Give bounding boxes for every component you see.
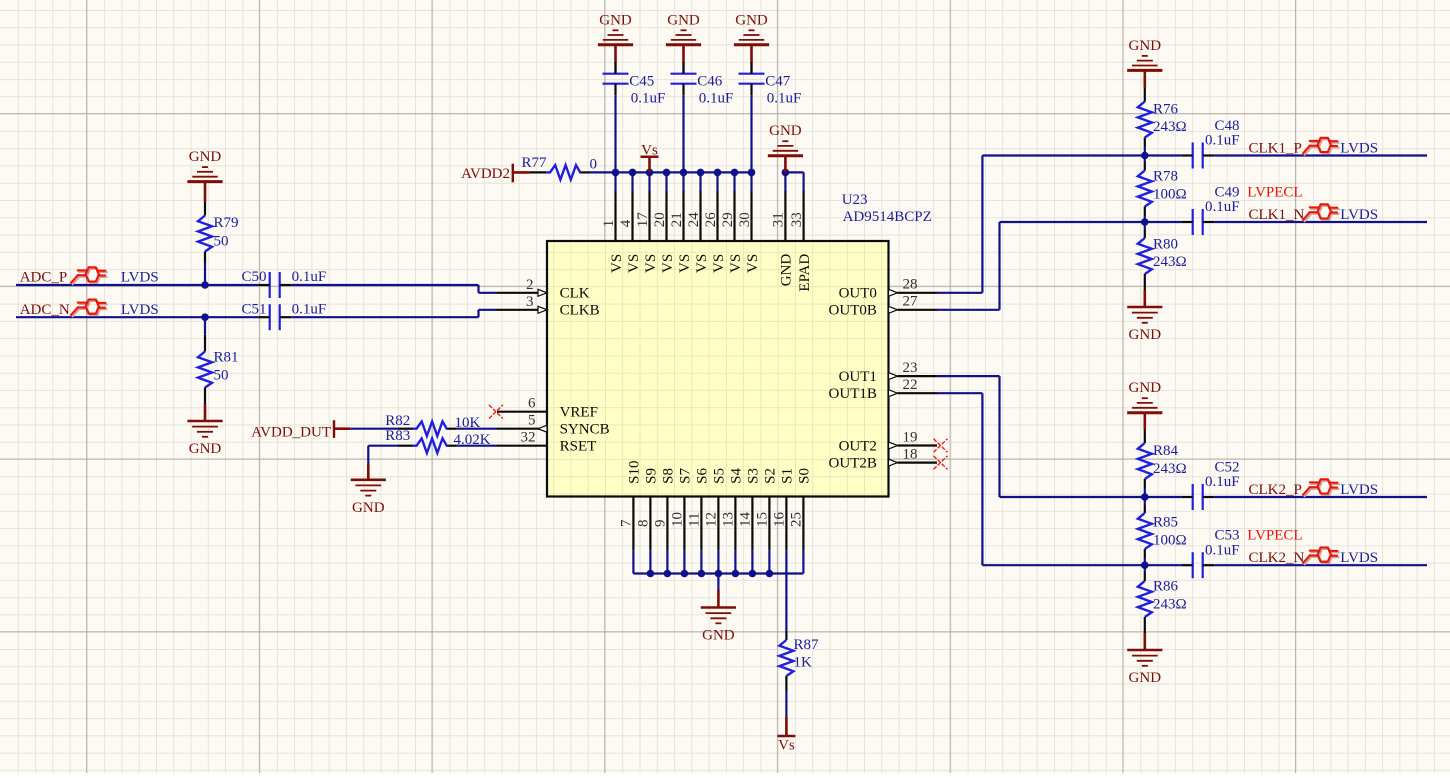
- svg-text:VS: VS: [677, 254, 693, 273]
- svg-text:3: 3: [526, 294, 534, 310]
- svg-text:4: 4: [618, 219, 634, 227]
- svg-text:ADC_P: ADC_P: [20, 270, 68, 286]
- svg-text:GND: GND: [189, 441, 222, 457]
- svg-text:13: 13: [721, 512, 737, 527]
- svg-text:10: 10: [670, 512, 686, 527]
- svg-text:EPAD: EPAD: [797, 254, 813, 292]
- svg-text:VS: VS: [609, 254, 625, 273]
- svg-text:0.1uF: 0.1uF: [1205, 474, 1240, 490]
- svg-text:GND: GND: [779, 254, 795, 287]
- svg-text:R77: R77: [522, 155, 548, 171]
- svg-text:4.02K: 4.02K: [454, 432, 491, 448]
- svg-text:Vs: Vs: [778, 738, 795, 754]
- svg-text:243Ω: 243Ω: [1153, 119, 1187, 135]
- svg-text:0.1uF: 0.1uF: [292, 269, 327, 285]
- svg-text:GND: GND: [352, 500, 385, 516]
- svg-text:R81: R81: [214, 350, 239, 366]
- svg-text:19: 19: [903, 429, 918, 445]
- svg-text:S3: S3: [746, 468, 762, 484]
- svg-text:R82: R82: [385, 413, 410, 429]
- svg-text:R87: R87: [794, 637, 820, 653]
- svg-text:50: 50: [214, 367, 229, 383]
- svg-text:25: 25: [789, 512, 805, 527]
- svg-text:R80: R80: [1153, 236, 1178, 252]
- svg-text:S7: S7: [678, 468, 694, 484]
- svg-text:1: 1: [601, 220, 617, 228]
- svg-text:LVDS: LVDS: [1340, 207, 1378, 223]
- svg-text:GND: GND: [1129, 38, 1162, 54]
- svg-text:GND: GND: [735, 12, 768, 28]
- svg-text:16: 16: [772, 512, 788, 528]
- svg-text:LVPECL: LVPECL: [1247, 528, 1302, 544]
- svg-text:CLK2_P: CLK2_P: [1249, 482, 1302, 498]
- svg-text:VS: VS: [728, 254, 744, 273]
- svg-text:AVDD2: AVDD2: [461, 166, 510, 182]
- svg-text:15: 15: [755, 512, 771, 527]
- svg-text:GND: GND: [1129, 670, 1162, 686]
- svg-text:CLK1_N: CLK1_N: [1249, 207, 1305, 223]
- svg-text:24: 24: [686, 212, 702, 228]
- svg-text:R86: R86: [1153, 579, 1179, 595]
- svg-text:OUT2: OUT2: [839, 438, 877, 454]
- svg-text:27: 27: [903, 294, 919, 310]
- svg-text:GND: GND: [702, 628, 735, 644]
- svg-text:R84: R84: [1153, 443, 1179, 459]
- svg-text:LVDS: LVDS: [121, 270, 159, 286]
- svg-text:0.1uF: 0.1uF: [1205, 542, 1240, 558]
- svg-text:C50: C50: [241, 269, 266, 285]
- svg-text:RSET: RSET: [560, 439, 597, 455]
- svg-text:14: 14: [738, 512, 754, 528]
- svg-text:29: 29: [720, 212, 736, 227]
- svg-text:R78: R78: [1153, 169, 1178, 185]
- svg-text:243Ω: 243Ω: [1153, 597, 1187, 613]
- svg-text:VREF: VREF: [560, 405, 598, 421]
- svg-text:243Ω: 243Ω: [1153, 461, 1187, 477]
- svg-text:32: 32: [521, 430, 536, 446]
- svg-text:GND: GND: [769, 123, 802, 139]
- svg-text:7: 7: [619, 519, 635, 527]
- svg-text:2: 2: [526, 277, 534, 293]
- svg-text:12: 12: [704, 512, 720, 527]
- svg-text:S6: S6: [695, 468, 711, 484]
- svg-text:21: 21: [669, 212, 685, 227]
- svg-text:31: 31: [771, 212, 787, 227]
- svg-text:6: 6: [528, 396, 536, 412]
- svg-text:OUT1B: OUT1B: [829, 386, 877, 402]
- svg-text:CLKB: CLKB: [560, 303, 600, 319]
- svg-text:GND: GND: [1129, 380, 1162, 396]
- svg-text:22: 22: [903, 377, 918, 393]
- svg-text:C45: C45: [629, 73, 654, 89]
- svg-text:S5: S5: [712, 468, 728, 484]
- svg-text:SYNCB: SYNCB: [560, 422, 610, 438]
- svg-text:33: 33: [789, 212, 805, 227]
- svg-text:8: 8: [636, 520, 652, 528]
- svg-text:C47: C47: [765, 73, 791, 89]
- svg-text:LVDS: LVDS: [1340, 482, 1378, 498]
- svg-text:S0: S0: [797, 468, 813, 484]
- svg-text:243Ω: 243Ω: [1153, 254, 1187, 270]
- svg-text:18: 18: [903, 446, 918, 462]
- svg-text:OUT0: OUT0: [839, 286, 877, 302]
- svg-text:5: 5: [528, 413, 536, 429]
- svg-text:GND: GND: [599, 12, 632, 28]
- svg-text:17: 17: [635, 212, 651, 228]
- svg-text:C52: C52: [1215, 459, 1240, 475]
- svg-text:S10: S10: [627, 461, 643, 484]
- svg-text:0.1uF: 0.1uF: [631, 90, 666, 106]
- svg-text:S8: S8: [661, 468, 677, 484]
- svg-text:VS: VS: [694, 254, 710, 273]
- svg-text:0.1uF: 0.1uF: [292, 301, 327, 317]
- svg-text:0.1uF: 0.1uF: [767, 90, 802, 106]
- svg-text:0.1uF: 0.1uF: [1205, 133, 1240, 149]
- svg-text:28: 28: [903, 277, 918, 293]
- svg-text:GND: GND: [667, 12, 700, 28]
- svg-text:26: 26: [703, 212, 719, 228]
- svg-text:R83: R83: [385, 428, 410, 444]
- svg-text:S2: S2: [763, 468, 779, 484]
- svg-text:C53: C53: [1215, 528, 1240, 544]
- svg-text:0.1uF: 0.1uF: [1205, 199, 1240, 215]
- svg-text:R76: R76: [1153, 101, 1179, 117]
- svg-text:23: 23: [903, 360, 918, 376]
- svg-text:R85: R85: [1153, 515, 1178, 531]
- svg-text:C51: C51: [241, 301, 266, 317]
- svg-text:VS: VS: [643, 254, 659, 273]
- svg-text:S9: S9: [644, 468, 660, 484]
- svg-text:C46: C46: [697, 73, 723, 89]
- svg-text:9: 9: [653, 520, 669, 528]
- svg-text:VS: VS: [711, 254, 727, 273]
- svg-text:LVDS: LVDS: [121, 302, 159, 318]
- svg-text:100Ω: 100Ω: [1153, 533, 1187, 549]
- svg-text:VS: VS: [626, 254, 642, 273]
- svg-text:CLK2_N: CLK2_N: [1249, 550, 1305, 566]
- svg-text:0.1uF: 0.1uF: [699, 90, 734, 106]
- svg-text:11: 11: [687, 513, 703, 527]
- svg-text:VS: VS: [745, 254, 761, 273]
- svg-text:CLK1_P: CLK1_P: [1249, 140, 1302, 156]
- svg-text:LVDS: LVDS: [1340, 140, 1378, 156]
- svg-text:0: 0: [590, 157, 598, 173]
- svg-text:LVPECL: LVPECL: [1247, 184, 1302, 200]
- svg-text:GND: GND: [1129, 327, 1162, 343]
- svg-text:10K: 10K: [455, 415, 481, 431]
- svg-text:S1: S1: [780, 468, 796, 484]
- svg-text:S4: S4: [729, 468, 745, 484]
- svg-text:1K: 1K: [794, 655, 813, 671]
- svg-text:CLK: CLK: [560, 286, 590, 302]
- svg-text:30: 30: [737, 212, 753, 227]
- svg-text:VS: VS: [660, 254, 676, 273]
- svg-text:C49: C49: [1215, 184, 1240, 200]
- svg-text:GND: GND: [189, 149, 222, 165]
- svg-text:50: 50: [214, 233, 229, 249]
- svg-text:20: 20: [652, 212, 668, 227]
- svg-text:AD9514BCPZ: AD9514BCPZ: [843, 209, 932, 225]
- svg-text:LVDS: LVDS: [1340, 550, 1378, 566]
- svg-text:U23: U23: [842, 192, 868, 208]
- svg-text:OUT2B: OUT2B: [829, 455, 877, 471]
- svg-text:ADC_N: ADC_N: [20, 302, 70, 318]
- svg-text:R79: R79: [214, 215, 239, 231]
- svg-text:OUT1: OUT1: [839, 369, 877, 385]
- svg-text:Vs: Vs: [641, 143, 658, 159]
- svg-text:100Ω: 100Ω: [1153, 187, 1187, 203]
- svg-text:OUT0B: OUT0B: [829, 303, 877, 319]
- svg-text:AVDD_DUT: AVDD_DUT: [251, 425, 331, 441]
- svg-text:C48: C48: [1215, 118, 1240, 134]
